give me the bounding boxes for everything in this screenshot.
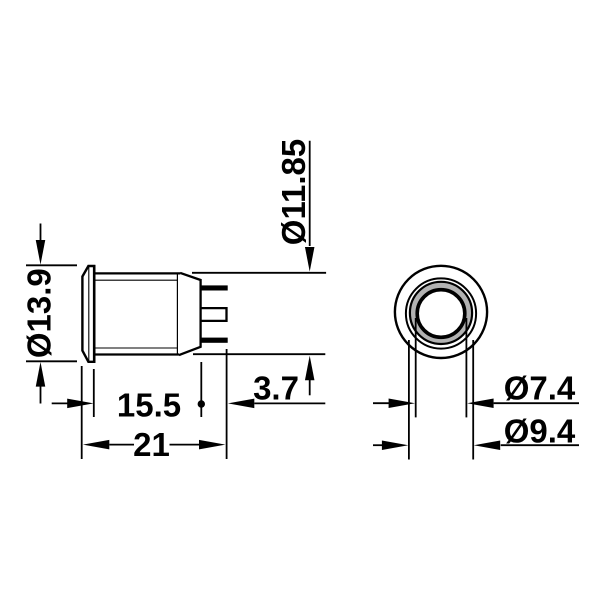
front view: body circle bbox=[406, 278, 476, 348]
front view: lens hole circle bbox=[417, 290, 465, 338]
dim Ø11.85: bottom up-arrow bbox=[305, 356, 315, 381]
body top chamfer line (thin) bbox=[94, 279, 177, 281]
rear cone (trapezoid) bbox=[179, 273, 201, 355]
dim Ø9.4: right extension line bbox=[472, 340, 474, 460]
dim Ø7.4: left arrow (right-pointing) with tail bbox=[373, 402, 390, 404]
dim 3.7: arrow (left-pointing) with tail bbox=[228, 399, 254, 409]
dim 21: left extension line bbox=[81, 366, 83, 459]
dim Ø9.4: left extension line bbox=[408, 340, 410, 460]
svg-text:Ø13.9: Ø13.9 bbox=[21, 268, 58, 358]
dim Ø7.4: right extension line bbox=[465, 318, 467, 417]
flange rear edge (thick) bbox=[93, 265, 96, 363]
dim Ø11.85: bottom extension line bbox=[193, 353, 325, 355]
dim 15.5: centre extension line through dot bbox=[200, 362, 202, 417]
body bottom chamfer line (thin) bbox=[94, 347, 177, 349]
dim Ø7.4: left extension line bbox=[415, 318, 417, 417]
terminal pin top (filled) bbox=[201, 285, 227, 290]
dim Ø11.85: vertical dimension line bbox=[309, 141, 311, 246]
terminal pin middle (outlined) bbox=[201, 308, 227, 321]
terminal pin bottom (filled) bbox=[201, 338, 227, 343]
svg-text:Ø7.4: Ø7.4 bbox=[504, 370, 576, 407]
dim Ø13.9: bottom arrow (up) bbox=[40, 385, 42, 404]
svg-text:3.7: 3.7 bbox=[253, 369, 299, 406]
dim Ø11.85: down arrow bbox=[305, 247, 315, 272]
dim Ø13.9: bottom extension line bbox=[26, 360, 77, 362]
svg-text:Ø9.4: Ø9.4 bbox=[504, 413, 576, 450]
dim Ø7.4: right arrow (left-pointing) with tail bbox=[467, 398, 493, 408]
dim 21: right arrow (right-pointing) bbox=[170, 444, 200, 446]
dim 15.5: left extension line bbox=[93, 369, 95, 417]
dim 21: left arrow (left-pointing) bbox=[83, 440, 109, 450]
dim 15.5: terminating dot bbox=[198, 400, 205, 407]
body rear edge (thin vertical) bbox=[176, 273, 178, 354]
flange outline (side view) bbox=[82, 266, 94, 362]
dim Ø13.9: top arrow (down) bbox=[40, 224, 42, 243]
body top edge bbox=[94, 272, 180, 274]
dim Ø9.4: left arrow (right-pointing) with tail bbox=[373, 444, 384, 446]
body bottom edge bbox=[94, 353, 180, 355]
svg-text:Ø11.85: Ø11.85 bbox=[275, 139, 312, 245]
dim 15.5: left arrow (right-pointing) bbox=[52, 402, 68, 404]
flange inner face line bbox=[88, 266, 90, 361]
dim Ø13.9: top extension line bbox=[26, 264, 77, 266]
svg-text:15.5: 15.5 bbox=[117, 387, 181, 424]
front view: bezel ring outer circle (grey filled) bbox=[410, 282, 472, 344]
dim Ø11.85: top extension line bbox=[192, 272, 326, 274]
dim Ø9.4: right arrow (left-pointing) with tail bbox=[474, 440, 500, 450]
dim 21: right extension line bbox=[226, 349, 228, 459]
front view: outer flange circle bbox=[395, 266, 487, 358]
svg-text:21: 21 bbox=[133, 426, 170, 463]
